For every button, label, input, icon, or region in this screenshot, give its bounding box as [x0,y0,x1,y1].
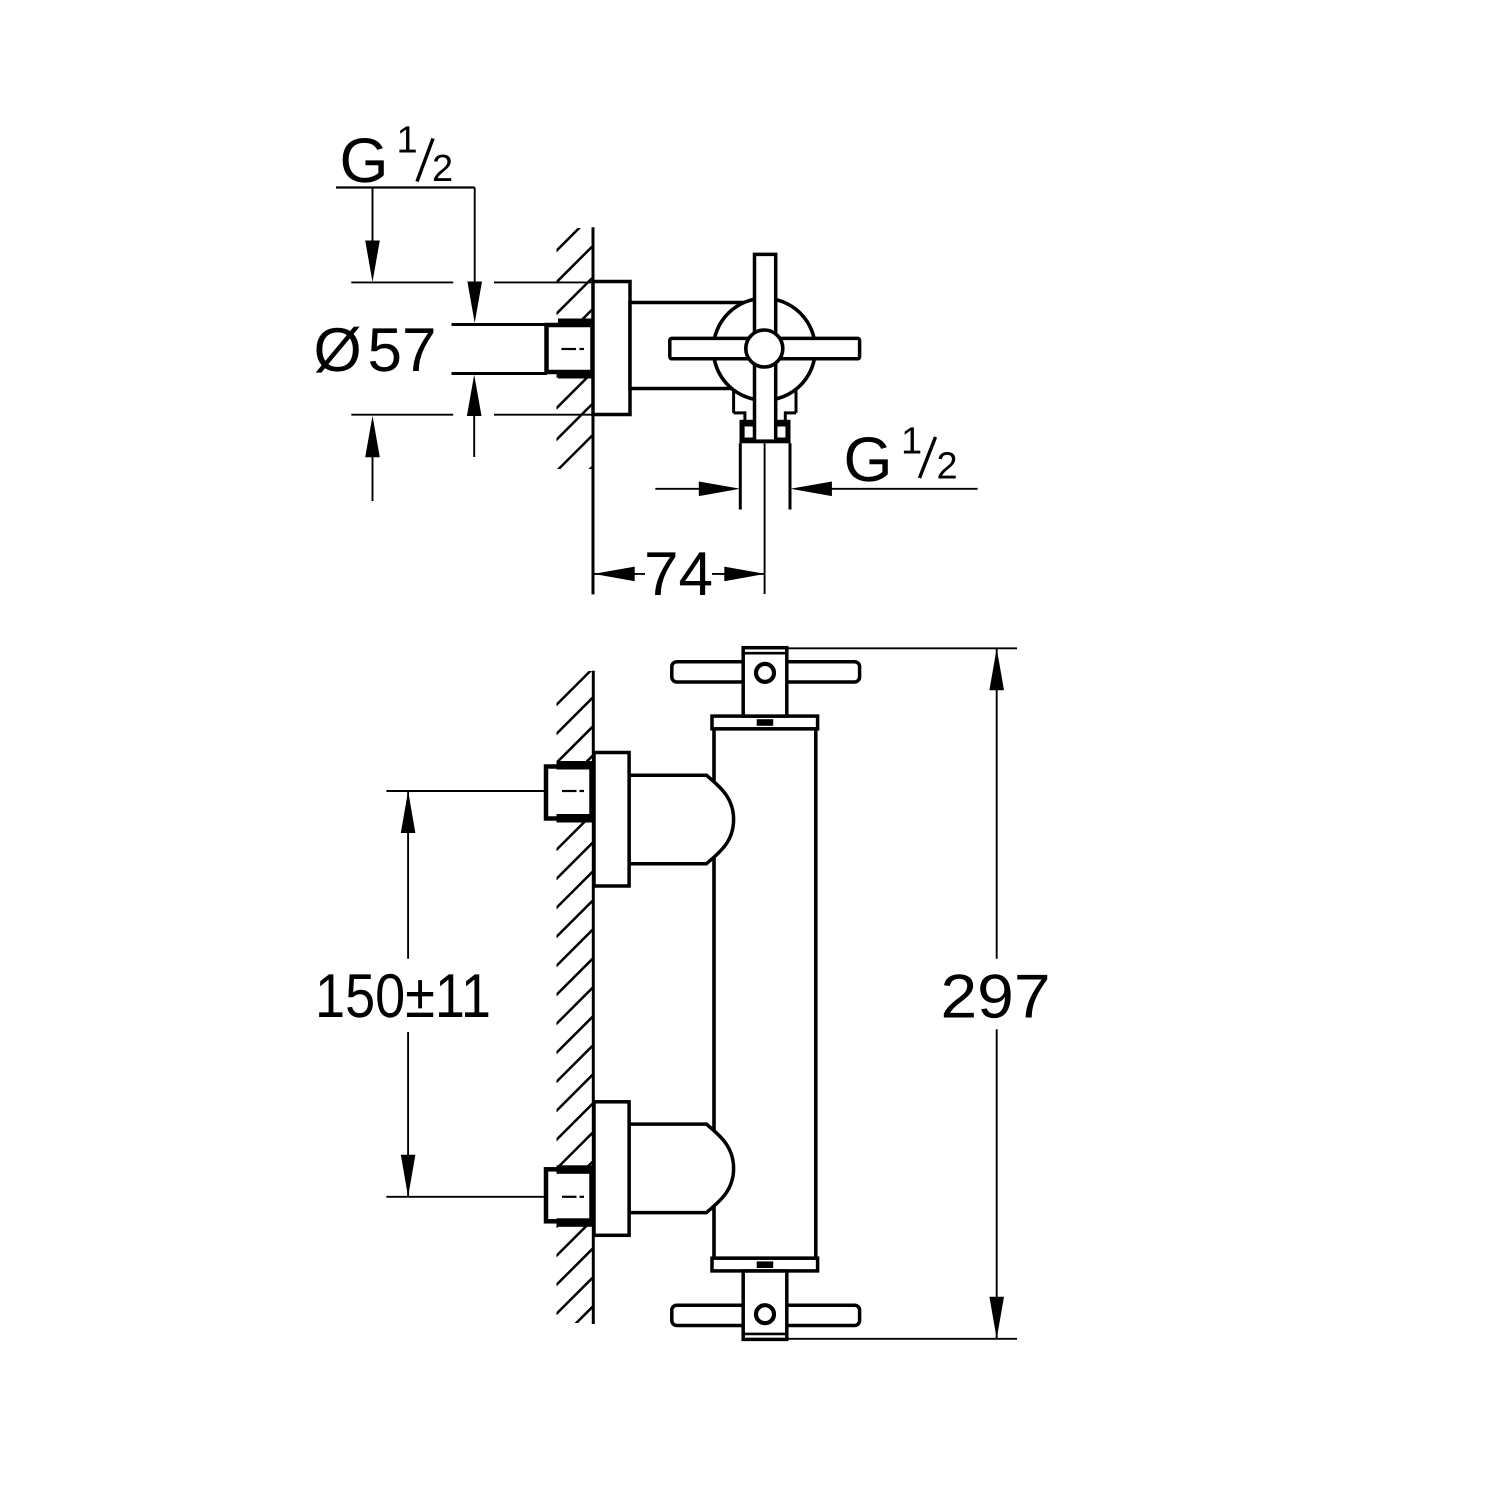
dimension 297 (overall height) [789,648,1051,1339]
cross-handle vertical arm (top view) [755,254,776,439]
nut collar bands (top view) [558,319,592,327]
hex nut on wall (top view) [547,325,593,372]
Ø57 lower arrow with tail [365,416,380,501]
svg-text:2: 2 [937,446,958,488]
dimension G 1/2 (outlet thread, right) [655,421,977,497]
top cap ring (bottom view) [712,716,818,729]
svg-text:G: G [844,425,893,495]
outlet neck (top view) [745,411,785,420]
upper escutcheon (bottom view) [594,753,629,887]
lower S-union cover (bottom view) [629,1124,734,1213]
bottom cap ring (bottom view) [712,1258,818,1271]
bottom hub seam line [743,1333,787,1336]
top cap black mark [757,719,774,726]
leader line + arrow of G1/2 to pipe top [467,188,482,324]
svg-text:57: 57 [368,316,437,385]
upper inlet centerline + extension [386,790,584,792]
top hub seam line [743,652,787,655]
G1/2 pipe lower arrow with tail [467,375,482,458]
top hub screw circle [756,664,774,682]
outlet nut G1/2 (top view) [740,420,791,444]
top handle hub (bottom view) [743,648,787,716]
lower nut collar bands [557,1165,594,1174]
escutcheon flange Ø57 (top view) [593,282,630,415]
S-union inlet pipe (top view) [452,325,548,374]
handle hub (top view) [746,330,783,367]
wall hatching (top view) [556,215,592,503]
bottom cap black mark [757,1261,774,1268]
bottom handle horizontal bar (bottom view) [672,1305,860,1325]
wall line (top view) [592,227,595,594]
valve body cylinder (top view) [630,303,764,389]
dimension extension lines for Ø57 (flange diameter) [351,282,591,414]
lower inlet centerline + extension [386,1196,584,1198]
svg-text:297: 297 [941,963,1051,1032]
cross-handle circle (top view, redrawn over outlet) [713,298,815,400]
outlet adapter below handle (top view) [734,385,796,413]
lower hex nut (bottom view) [546,1169,592,1221]
wall hatching (bottom view) [556,669,593,1344]
svg-text:1: 1 [397,120,418,162]
svg-text:150±11: 150±11 [315,962,491,1031]
valve body (bottom view) [714,729,816,1258]
svg-text:Ø: Ø [314,316,362,385]
handle axis extension line (top view) [764,443,766,594]
bottom hub screw circle [756,1305,774,1323]
dimension 74 (wall to handle axis) [594,540,766,609]
leader line + arrow of Ø57 upper [365,188,380,283]
wall line (bottom view) [592,671,595,1324]
pipe centerline dash-dot (top view) [562,348,577,350]
upper nut collar bands [557,761,594,770]
svg-text:2: 2 [432,148,453,190]
svg-text:1: 1 [901,421,922,463]
lower escutcheon (bottom view) [594,1102,629,1236]
top handle horizontal bar (bottom view) [672,662,860,682]
shower hose connection pipe (top view) [739,443,742,509]
label G 1/2 (top left) with underline [336,120,475,197]
dimension 150±11 (inlet spacing) [315,791,491,1197]
bottom handle hub (bottom view) [743,1271,787,1339]
upper S-union cover (bottom view) [629,775,734,864]
cross-handle horizontal arm (top view) [670,338,860,358]
upper hex nut (bottom view) [546,767,592,819]
svg-text:74: 74 [644,540,713,609]
svg-text:G: G [340,126,389,196]
